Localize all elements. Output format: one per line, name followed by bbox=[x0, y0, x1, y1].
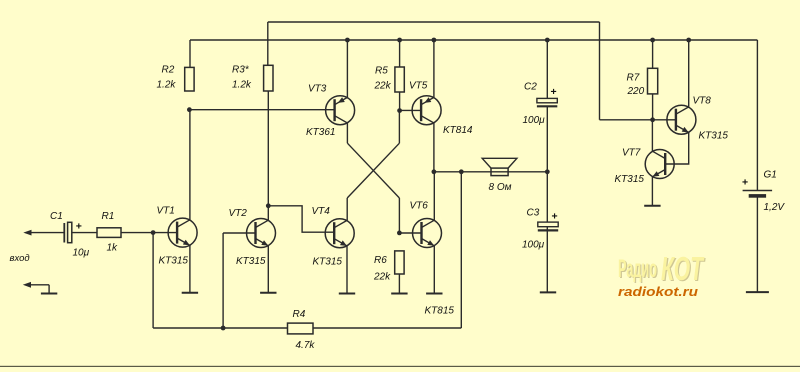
wire: R4 line left bbox=[153, 327, 287, 329]
wire: C2 bottom to output bbox=[546, 106, 548, 172]
svg-text:C3: C3 bbox=[527, 208, 540, 219]
speaker BA1 8 Ом bbox=[482, 158, 517, 175]
wire: VT6 emitter down bbox=[433, 246, 435, 294]
capacitor C3 bbox=[538, 222, 558, 230]
svg-text:KT315: KT315 bbox=[313, 257, 343, 268]
node: output at VT5/VT6 collectors bbox=[432, 169, 437, 174]
label VT6 bbox=[410, 201, 429, 212]
node: VT6 base node bbox=[397, 231, 402, 236]
svg-text:1k: 1k bbox=[107, 243, 119, 254]
wire: C3 bottom to ground bbox=[546, 227, 548, 293]
node: C2 on rail bbox=[545, 38, 550, 43]
wire: C3 top from output bbox=[546, 172, 548, 222]
svg-text:KT315: KT315 bbox=[159, 256, 189, 267]
wire: R7 bottom to node bbox=[652, 94, 654, 120]
transistor VT7 (mirrored) bbox=[645, 150, 674, 179]
node: VT2 collector / R3 bottom / VT4 coupling bbox=[266, 203, 271, 208]
battery G1 positive plate bbox=[743, 190, 773, 192]
wire: VT2 emitter down bbox=[267, 246, 269, 293]
label C2 polarity + bbox=[551, 86, 557, 98]
svg-text:1.2k: 1.2k bbox=[157, 80, 177, 91]
node: output at C2/C3 bbox=[545, 169, 550, 174]
node: R5 on rail bbox=[397, 38, 402, 43]
svg-text:100μ: 100μ bbox=[523, 115, 546, 126]
wire: VT8 emitter to VT7 base bbox=[665, 133, 689, 165]
label: вход (input) bbox=[10, 253, 30, 264]
label R7 value 220 bbox=[627, 86, 645, 97]
wire: cross down to VT6 base node bbox=[398, 198, 400, 233]
svg-text:вход: вход bbox=[10, 253, 30, 264]
label VT1 bbox=[157, 206, 175, 217]
label VT5 type KT814 bbox=[443, 125, 473, 136]
label VT6 type KT815 bbox=[425, 306, 455, 317]
ground (VT1 emitter) bbox=[182, 292, 198, 294]
label R5 bbox=[375, 66, 388, 77]
wire: VT7 emitter down bbox=[651, 177, 653, 206]
node: R2 bottom / VT1 collector / VT3 base bbox=[187, 107, 192, 112]
svg-text:Радио: Радио bbox=[618, 255, 657, 283]
label VT2 type KT315 bbox=[236, 256, 266, 267]
transistor VT1 bbox=[168, 218, 197, 247]
wire: bootstrap rail left drop to R3* top bbox=[267, 22, 269, 65]
capacitor C2 bbox=[537, 98, 557, 106]
wire: VT2 base feedback drop to R4 line bbox=[222, 233, 224, 328]
ground (R6) bbox=[391, 293, 407, 295]
input arrow (signal in) bbox=[23, 230, 64, 236]
wire: R5 bottom to VT5 base node bbox=[399, 92, 401, 111]
wire: C2 top from rail bbox=[546, 40, 548, 98]
svg-text:VT6: VT6 bbox=[410, 201, 429, 212]
wire: VT4 emitter down bbox=[346, 246, 348, 294]
wire: VT6 collector up to output bbox=[433, 172, 435, 220]
wire: VT8 collector up to rail bbox=[688, 40, 690, 107]
label R5 value 22k bbox=[374, 81, 392, 92]
resistor R4 bbox=[288, 323, 314, 334]
wire: bootstrap rail right drop toward R7 bottom node bbox=[599, 22, 601, 120]
label VT7 bbox=[622, 148, 641, 159]
wire: feedback drop from output bbox=[460, 172, 462, 328]
svg-text:+: + bbox=[552, 211, 558, 223]
svg-text:VT5: VT5 bbox=[409, 81, 428, 92]
wire: R7 top to rail bbox=[652, 40, 654, 68]
input ground stub arrow bbox=[23, 282, 49, 294]
watermark Радио КОТ bbox=[618, 250, 706, 288]
label VT7 type KT315 bbox=[615, 174, 645, 185]
transistor VT5 (PNP) bbox=[412, 96, 441, 125]
wire: G1 negative down bbox=[756, 197, 758, 292]
wire: VT5 emitter up to rail bbox=[433, 40, 435, 97]
wire: VT3 emitter up to supply rail bbox=[346, 40, 348, 97]
label C3 value 100μ bbox=[522, 240, 545, 251]
label VT8 type KT315 bbox=[699, 131, 729, 142]
wire: horizontal into R7 bottom / VT8 base node bbox=[600, 119, 676, 121]
label C3 polarity + bbox=[552, 211, 558, 223]
node: VT1 base / feedback junction bbox=[151, 230, 156, 235]
wire: VT2 base from feedback bbox=[223, 232, 255, 234]
resistor R1 bbox=[97, 228, 121, 238]
battery G1 negative plate bbox=[749, 195, 765, 198]
transistor VT8 bbox=[667, 105, 696, 134]
wire: VT7 collector up to node bbox=[651, 120, 653, 151]
svg-text:C2: C2 bbox=[524, 82, 537, 93]
svg-text:VT8: VT8 bbox=[693, 96, 712, 107]
label VT4 type KT315 bbox=[313, 257, 343, 268]
svg-text:VT7: VT7 bbox=[622, 148, 641, 159]
wire: diagonal R5/VT5 base side to VT4 collector bbox=[347, 143, 399, 198]
svg-text:KT361: KT361 bbox=[306, 127, 335, 138]
svg-text:radiokot.ru: radiokot.ru bbox=[618, 284, 698, 299]
wire: VT5 base node down to cross bbox=[398, 111, 400, 144]
svg-text:100μ: 100μ bbox=[522, 240, 545, 251]
label C3 bbox=[527, 208, 540, 219]
svg-text:R3*: R3* bbox=[232, 65, 250, 76]
label R2 bbox=[162, 65, 175, 76]
label R4 bbox=[293, 309, 306, 320]
svg-text:1.2k: 1.2k bbox=[232, 80, 252, 91]
label G1 polarity + bbox=[742, 177, 748, 189]
watermark radiokot.ru bbox=[618, 284, 698, 299]
svg-text:R4: R4 bbox=[293, 309, 306, 320]
wire: supply rail right drop to G1 positive bbox=[756, 40, 758, 191]
label R6 bbox=[374, 255, 387, 266]
label VT5 bbox=[409, 81, 428, 92]
wire: R5 top to rail bbox=[399, 40, 401, 67]
wire: R4 line right bbox=[313, 327, 461, 329]
wire: VT5 collector down to output bbox=[433, 123, 435, 172]
resistor R3* bbox=[264, 65, 273, 91]
svg-text:VT3: VT3 bbox=[308, 84, 327, 95]
wire: +1.2V supply rail bbox=[190, 39, 757, 41]
svg-text:R2: R2 bbox=[162, 65, 175, 76]
wire: diagonal VT3 collector to VT6 base side bbox=[347, 143, 399, 198]
label R1 bbox=[102, 211, 115, 222]
wire: bias line R2 node to VT3 base bbox=[189, 109, 334, 111]
node: R7 bottom / VT8 base / VT7 collector / bootstrap bbox=[650, 117, 655, 122]
svg-text:4.7k: 4.7k bbox=[296, 340, 316, 351]
ground (VT7 emitter) bbox=[644, 205, 660, 207]
transistor VT3 (PNP) bbox=[326, 96, 355, 125]
svg-text:KT815: KT815 bbox=[425, 306, 455, 317]
node: VT5 base node bbox=[397, 108, 402, 113]
svg-text:KT315: KT315 bbox=[615, 174, 645, 185]
ground (G1 negative) bbox=[746, 291, 769, 293]
wire: cross down to VT4 collector bbox=[346, 198, 348, 220]
transistor VT2 bbox=[247, 219, 276, 248]
wire: VT1 collector up to R2 bottom bbox=[189, 110, 191, 220]
svg-text:VT4: VT4 bbox=[312, 206, 331, 217]
label C2 bbox=[524, 82, 537, 93]
node: feedback to VT2 base bbox=[221, 326, 226, 331]
capacitor C1 bbox=[64, 222, 97, 242]
node: R7 on rail bbox=[650, 38, 655, 43]
svg-text:220: 220 bbox=[627, 86, 645, 97]
ground (VT4 emitter) bbox=[339, 293, 355, 295]
transistor VT4 bbox=[325, 219, 354, 248]
svg-text:KT814: KT814 bbox=[443, 125, 473, 136]
svg-text:G1: G1 bbox=[764, 170, 777, 181]
transistor VT6 bbox=[413, 219, 442, 248]
resistor R5 bbox=[395, 67, 404, 92]
svg-text:+: + bbox=[76, 221, 82, 233]
svg-text:C1: C1 bbox=[50, 211, 63, 222]
label G1 bbox=[764, 170, 777, 181]
label speaker impedance 8 Ом bbox=[489, 182, 512, 193]
wire: VT1 emitter down bbox=[189, 245, 191, 292]
svg-text:R7: R7 bbox=[627, 73, 640, 84]
label C1 bbox=[50, 211, 63, 222]
label C1 polarity + bbox=[76, 221, 82, 233]
resistor R2 bbox=[185, 67, 194, 91]
label R3 value 1.2k bbox=[232, 80, 252, 91]
resistor R6 bbox=[395, 251, 404, 274]
ground (VT2 emitter) bbox=[260, 292, 276, 294]
wire: bootstrap top rail from R3* top to VT8 base node bbox=[268, 21, 600, 23]
label C1 value 10μ bbox=[73, 248, 90, 259]
svg-text:22k: 22k bbox=[373, 272, 391, 283]
label VT2 bbox=[229, 208, 248, 219]
label C2 value 100μ bbox=[523, 115, 546, 126]
svg-text:+: + bbox=[551, 86, 557, 98]
resistor R7 bbox=[648, 68, 658, 94]
label R7 bbox=[627, 73, 640, 84]
label R4 value 4.7k bbox=[296, 340, 316, 351]
svg-text:KT315: KT315 bbox=[699, 131, 729, 142]
svg-text:VT1: VT1 bbox=[157, 206, 175, 217]
svg-text:R6: R6 bbox=[374, 255, 387, 266]
wire: R3 bottom to VT2 collector node bbox=[267, 91, 269, 206]
wire: supply rail left drop to R2 top bbox=[189, 40, 191, 67]
label R6 value 22k bbox=[373, 272, 391, 283]
wire: coupling VT2 collector to VT4 base bbox=[268, 206, 334, 232]
wire: feedback rise to VT1 base bbox=[152, 233, 154, 328]
wire: VT3 collector down to cross bbox=[346, 123, 348, 143]
wire: VT6 base wire bbox=[399, 232, 421, 234]
label R1 value 1k bbox=[107, 243, 119, 254]
ground (C3) bbox=[540, 291, 556, 293]
wire: VT5 base wire bbox=[400, 109, 422, 111]
label R2 value 1.2k bbox=[157, 80, 177, 91]
wire: R1 to VT1 base bbox=[121, 232, 177, 234]
node: VT5 emitter on rail bbox=[432, 38, 437, 43]
label VT3 bbox=[308, 84, 327, 95]
wire: VT2 collector up to node bbox=[267, 206, 269, 220]
svg-text:R1: R1 bbox=[102, 211, 115, 222]
bottom border edge bbox=[0, 366, 800, 367]
svg-text:KT315: KT315 bbox=[236, 256, 266, 267]
label VT3 type KT361 bbox=[306, 127, 335, 138]
wire: output line bbox=[434, 171, 547, 173]
label R3* bbox=[232, 65, 250, 76]
svg-text:22k: 22k bbox=[374, 81, 392, 92]
wire: R6 bottom to ground bbox=[398, 274, 400, 294]
svg-text:VT2: VT2 bbox=[229, 208, 248, 219]
svg-text:КОТ: КОТ bbox=[661, 250, 705, 287]
svg-text:8 Ом: 8 Ом bbox=[489, 182, 512, 193]
node: VT3 emitter on rail bbox=[345, 38, 350, 43]
svg-text:10μ: 10μ bbox=[73, 248, 90, 259]
label VT4 bbox=[312, 206, 331, 217]
ground (VT6 emitter) bbox=[426, 293, 442, 295]
svg-text:1,2V: 1,2V bbox=[764, 202, 786, 213]
ground (input stub) bbox=[41, 293, 57, 295]
svg-text:R5: R5 bbox=[375, 66, 388, 77]
node: VT8 collector on rail bbox=[686, 38, 691, 43]
label VT8 bbox=[693, 96, 712, 107]
label G1 value 1,2V bbox=[764, 202, 786, 213]
svg-text:+: + bbox=[742, 177, 748, 189]
node: output feedback tap bbox=[459, 169, 464, 174]
label VT1 type KT315 bbox=[159, 256, 189, 267]
